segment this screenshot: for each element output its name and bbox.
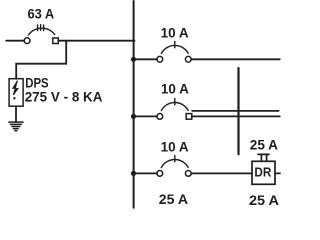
breaker 10A-3 right contact circle xyxy=(185,171,191,177)
svg-text:25 A: 25 A xyxy=(159,191,188,207)
DPS bolt dot xyxy=(13,97,15,99)
wire: tap down to DPS xyxy=(16,41,66,79)
svg-text:25 A: 25 A xyxy=(249,192,279,208)
breaker 10A-3 arc xyxy=(161,159,188,167)
wire: branch 2 out double line bottom xyxy=(192,115,280,117)
DR test symbol right leg xyxy=(266,154,268,161)
breaker 10A-2 left contact circle xyxy=(157,114,163,120)
svg-text:10 A: 10 A xyxy=(161,25,189,41)
breaker 10A-2 fixed contact square xyxy=(186,114,192,120)
node dot branch 1 xyxy=(131,57,136,62)
DR test symbol left leg xyxy=(260,154,262,161)
wire: DR right stub xyxy=(275,172,280,174)
wire: branch 1 out xyxy=(191,58,280,60)
wire: DPS to ground xyxy=(15,106,17,121)
svg-text:63 A: 63 A xyxy=(28,5,55,21)
breaker 63A left contact circle xyxy=(24,38,30,44)
breaker 10A-1 left contact circle xyxy=(157,56,163,62)
ground bar 5 xyxy=(15,130,17,132)
breaker 10A-3 tick xyxy=(174,156,176,162)
ground bar 2 xyxy=(10,123,21,125)
breaker 10A-1 arc xyxy=(161,45,188,53)
wire: bus to breaker 1 xyxy=(134,58,157,60)
DR test symbol top bar xyxy=(258,153,269,155)
svg-text:10 A: 10 A xyxy=(161,138,189,154)
breaker 10A-1 right contact circle xyxy=(185,56,191,62)
breaker 10A-3 left contact circle xyxy=(157,171,163,177)
wire: branch 2 out double line top xyxy=(192,110,278,112)
DR device box xyxy=(252,161,275,184)
svg-text:275 V - 8 KA: 275 V - 8 KA xyxy=(25,89,103,105)
wire: branch 3 to DR xyxy=(191,172,252,174)
wire: incoming feeder left xyxy=(6,40,24,42)
divider vertical line xyxy=(237,68,239,154)
svg-text:25 A: 25 A xyxy=(250,136,278,152)
svg-text:DR: DR xyxy=(254,166,271,180)
wire: breaker to bus xyxy=(58,40,134,42)
DPS box xyxy=(9,79,23,107)
breaker 63A tick 1 xyxy=(37,25,39,31)
DPS lightning bolt xyxy=(13,81,18,95)
node dot branch 2 xyxy=(131,114,136,119)
ground bar 1 xyxy=(9,121,23,123)
svg-text:10 A: 10 A xyxy=(161,81,189,97)
ground bar 3 xyxy=(12,126,20,128)
bus vertical line xyxy=(133,1,135,208)
wire: bus to breaker 3 xyxy=(134,172,157,174)
breaker 63A fixed contact square xyxy=(53,38,59,44)
breaker 63A tick 2 xyxy=(40,25,42,31)
breaker 63A tick 3 xyxy=(43,25,45,31)
breaker 10A-2 tick xyxy=(174,99,176,105)
breaker 10A-2 arc xyxy=(161,102,188,110)
breaker 10A-1 tick xyxy=(174,41,176,47)
breaker 63A arc xyxy=(28,28,54,35)
ground bar 4 xyxy=(13,128,18,130)
node dot branch 3 xyxy=(131,171,136,176)
wire: bus to breaker 2 xyxy=(134,115,157,117)
